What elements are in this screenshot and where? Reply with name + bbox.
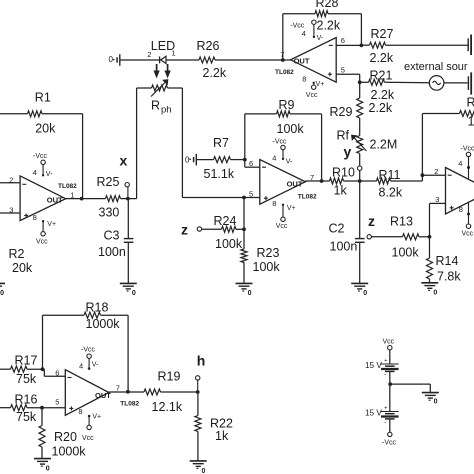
svg-text:5: 5	[249, 190, 253, 199]
battery V2 15V	[381, 411, 399, 413]
resistor R19 12.1k	[144, 389, 161, 395]
wire U1 pin2 input	[0, 182, 20, 184]
svg-text:-Vcc: -Vcc	[461, 146, 474, 153]
ground R23	[236, 282, 253, 284]
svg-text:2.2k: 2.2k	[370, 51, 394, 65]
resistor R1 20k feedback	[0, 113, 28, 115]
resistor R25 330	[106, 196, 121, 202]
U1 V- supply stub	[42, 165, 44, 176]
svg-text:R23: R23	[257, 246, 280, 260]
resistor R17 75k	[0, 368, 11, 370]
svg-text:6: 6	[341, 36, 345, 45]
svg-text:R13: R13	[390, 215, 413, 229]
svg-text:2: 2	[9, 175, 13, 184]
svg-text:z: z	[368, 213, 375, 229]
svg-text:h: h	[197, 353, 206, 369]
wire U2 output	[305, 180, 329, 182]
svg-text:V-: V-	[317, 35, 324, 42]
svg-text:0: 0	[109, 55, 114, 64]
svg-text:7: 7	[116, 383, 120, 392]
resistor R22 1k	[197, 392, 199, 416]
svg-text:2.2k: 2.2k	[369, 101, 393, 115]
svg-text:100n: 100n	[330, 240, 358, 254]
svg-text:TL082: TL082	[58, 183, 77, 190]
photoresistor Rph	[136, 88, 138, 199]
resistor R28 2.2k feedback	[282, 14, 284, 60]
svg-text:-Vcc: -Vcc	[273, 138, 288, 145]
wire Rph right to U2 pin5	[181, 88, 183, 198]
svg-text:2.2k: 2.2k	[371, 88, 395, 102]
svg-text:7.8k: 7.8k	[437, 270, 461, 284]
node U5 output junction (to R28)	[281, 58, 285, 62]
U2 V+ supply stub	[282, 204, 284, 217]
wire R1 to U1 output	[82, 114, 84, 199]
node h	[196, 390, 200, 394]
svg-text:8: 8	[272, 199, 276, 208]
svg-text:TL082: TL082	[298, 193, 317, 200]
svg-text:V+: V+	[47, 221, 56, 228]
node U2 pin6 junction	[243, 158, 247, 162]
svg-text:Vcc: Vcc	[306, 92, 318, 99]
svg-text:+: +	[384, 358, 387, 364]
resistor R14 7.8k	[429, 237, 431, 258]
svg-text:1k: 1k	[215, 429, 229, 443]
svg-text:R21: R21	[370, 69, 393, 83]
svg-text:LED: LED	[151, 39, 175, 53]
svg-text:20k: 20k	[35, 122, 56, 136]
svg-text:20k: 20k	[12, 261, 33, 275]
wire battery junction	[389, 371, 391, 411]
svg-text:75k: 75k	[16, 410, 37, 424]
svg-text:R25: R25	[97, 175, 120, 189]
svg-text:6: 6	[55, 368, 59, 377]
svg-text:TL082: TL082	[120, 400, 139, 407]
svg-text:100k: 100k	[253, 260, 281, 274]
resistor R7 51.1k	[196, 159, 213, 161]
svg-text:2.2M: 2.2M	[370, 138, 398, 152]
battery V1 15V	[389, 350, 391, 364]
svg-text:8: 8	[78, 407, 82, 416]
-Vcc supply terminal	[388, 432, 392, 436]
svg-text:8: 8	[459, 205, 463, 214]
wire R11 up to U3 pin2	[421, 114, 423, 182]
node R17/R18 junction	[41, 367, 45, 371]
svg-text:-: -	[384, 371, 386, 378]
ground R22	[190, 460, 207, 462]
svg-text:-Vcc: -Vcc	[382, 440, 397, 447]
svg-text:12.1k: 12.1k	[152, 400, 183, 414]
svg-text:Rf: Rf	[337, 129, 350, 143]
svg-text:8: 8	[302, 75, 306, 84]
svg-text:3: 3	[9, 205, 13, 214]
svg-text:4: 4	[302, 29, 306, 38]
resistor R11 8.2k	[377, 178, 391, 184]
U2 V- supply stub	[282, 150, 284, 160]
U3 V- supply stub	[468, 157, 470, 179]
svg-text:V+: V+	[287, 205, 296, 212]
capacitor (R27, cut at right edge)	[467, 38, 469, 51]
svg-text:-: -	[384, 419, 386, 426]
svg-text:OUT: OUT	[95, 391, 111, 400]
resistor R13 100k	[371, 236, 402, 238]
svg-text:100n: 100n	[98, 245, 126, 259]
ground R20	[34, 458, 51, 460]
svg-text:R17: R17	[15, 354, 38, 368]
svg-text:-Vcc: -Vcc	[33, 153, 48, 160]
svg-text:V+: V+	[92, 414, 101, 421]
svg-text:5: 5	[55, 398, 59, 407]
svg-text:-Vcc: -Vcc	[81, 346, 96, 353]
resistor R21 2.2k	[360, 81, 369, 83]
resistor R20 1000k	[41, 408, 43, 426]
node z (second)	[367, 235, 371, 239]
svg-text:R1: R1	[35, 91, 51, 105]
svg-text:R20: R20	[54, 430, 77, 444]
svg-text:2: 2	[434, 167, 438, 176]
svg-text:4: 4	[272, 154, 276, 163]
wire U5 pin5 down	[336, 73, 360, 75]
svg-text:0: 0	[185, 155, 190, 164]
U5 V- supply stub	[313, 24, 315, 37]
resistor R23 100k	[241, 249, 247, 263]
U5 V+ supply stub	[313, 82, 315, 85]
svg-text:0: 0	[202, 468, 206, 474]
svg-text:100k: 100k	[392, 246, 420, 260]
svg-text:2.2k: 2.2k	[203, 66, 227, 80]
svg-text:R7: R7	[213, 136, 229, 150]
resistor R18 1000k feedback	[42, 315, 44, 369]
svg-text:330: 330	[99, 206, 120, 220]
svg-text:0: 0	[433, 289, 437, 296]
svg-text:Vcc: Vcc	[36, 239, 48, 246]
svg-text:0: 0	[0, 290, 4, 297]
node y	[358, 166, 362, 170]
svg-text:TL082: TL082	[275, 69, 294, 76]
svg-text:R19: R19	[158, 370, 181, 384]
U1 V+ supply stub	[42, 221, 44, 232]
potentiometer Rf 2.2M	[357, 136, 363, 154]
wire U4 output	[109, 391, 144, 393]
svg-text:1: 1	[468, 115, 474, 129]
op-amp U5 TL082 (output at left)	[291, 38, 337, 83]
LED light arrows	[156, 64, 158, 72]
svg-text:+: +	[384, 406, 387, 412]
LED diode	[159, 56, 161, 63]
svg-text:0: 0	[363, 290, 367, 297]
svg-text:R29: R29	[330, 105, 353, 119]
resistor R26 2.2k	[199, 57, 215, 63]
ground supply	[422, 392, 439, 394]
resistor R10 1k	[330, 178, 344, 184]
U4 V+ supply stub	[88, 415, 90, 425]
svg-text:OUT: OUT	[294, 56, 310, 65]
svg-text:R10: R10	[332, 166, 355, 180]
svg-text:R28: R28	[316, 0, 339, 10]
svg-text:4: 4	[79, 362, 83, 371]
svg-text:x: x	[120, 153, 128, 169]
Vcc supply terminal	[388, 346, 392, 350]
svg-text:Vcc: Vcc	[383, 339, 395, 346]
svg-text:Vcc: Vcc	[82, 435, 94, 442]
svg-text:0: 0	[46, 466, 50, 473]
resistor R29 2.2k	[357, 98, 363, 118]
svg-text:Vcc: Vcc	[462, 231, 474, 238]
wire R9 right leg down to U2 output	[321, 114, 323, 181]
wire LED branch	[120, 59, 199, 61]
U3 V+ supply stub	[468, 203, 470, 224]
capacitor C2 100n	[355, 238, 365, 240]
svg-text:R: R	[467, 96, 474, 110]
svg-text:0: 0	[248, 290, 252, 297]
node U1 output junction	[80, 197, 84, 201]
svg-text:51.1k: 51.1k	[204, 167, 235, 181]
U4 V- supply stub	[88, 358, 90, 369]
svg-text:2.2k: 2.2k	[317, 19, 341, 33]
svg-text:C2: C2	[329, 222, 345, 236]
wire U5 pin6 to R27	[336, 44, 361, 46]
resistor R24 100k	[202, 228, 222, 230]
svg-text:R24: R24	[214, 214, 237, 228]
svg-text:z: z	[181, 222, 188, 238]
wire to feedback resistor (cut at right edge)	[422, 113, 459, 115]
Rph arrow	[151, 81, 167, 97]
svg-text:external sour: external sour	[404, 61, 468, 73]
svg-text:R26: R26	[197, 39, 220, 53]
wire U2 pin5 down to R24/R23 junction	[243, 198, 245, 250]
svg-text:4: 4	[33, 168, 37, 177]
svg-text:1000k: 1000k	[52, 445, 87, 459]
svg-text:R18: R18	[86, 301, 109, 315]
wire U1 output to x node	[66, 198, 106, 200]
svg-text:Vcc: Vcc	[276, 223, 288, 230]
wire U3 pin3	[430, 202, 446, 204]
wire R9 left leg down to pin6	[244, 114, 246, 167]
resistor R27 2.2k	[361, 44, 369, 46]
svg-text:1000k: 1000k	[86, 317, 121, 331]
svg-text:15 V: 15 V	[365, 361, 382, 370]
ground C3	[120, 282, 137, 284]
svg-text:1k: 1k	[334, 184, 348, 198]
svg-text:-Vcc: -Vcc	[290, 22, 305, 29]
svg-text:5: 5	[341, 66, 345, 75]
svg-text:8: 8	[33, 213, 37, 222]
svg-text:R9: R9	[279, 98, 295, 112]
svg-text:OUT: OUT	[287, 179, 303, 188]
node x	[126, 197, 130, 201]
wire U1 pin3 input	[0, 212, 20, 214]
resistor R9 100k feedback	[245, 113, 277, 115]
svg-text:R16: R16	[15, 393, 38, 407]
svg-text:R14: R14	[436, 254, 459, 268]
svg-text:75k: 75k	[16, 372, 37, 386]
svg-text:100k: 100k	[277, 122, 305, 136]
wire to U4 pin6	[43, 369, 45, 376]
op-amp U4 TL082	[65, 370, 109, 416]
svg-text:y: y	[344, 144, 352, 160]
svg-text:V+: V+	[316, 81, 325, 88]
ground R14	[421, 282, 438, 284]
svg-text:15 V: 15 V	[365, 409, 382, 418]
op-amp U2 TL082	[260, 160, 306, 205]
svg-text:V-: V-	[46, 171, 53, 178]
op-amp U1 TL082	[20, 176, 66, 221]
capacitor C3 100n	[127, 199, 129, 238]
op-amp U3 TL082 (cut at right edge)	[446, 168, 474, 215]
ground R2	[0, 282, 5, 284]
svg-text:R: R	[151, 99, 160, 113]
svg-text:0: 0	[132, 290, 136, 297]
svg-text:R2: R2	[9, 247, 25, 261]
svg-text:8.2k: 8.2k	[379, 186, 403, 200]
svg-text:100k: 100k	[215, 237, 243, 251]
svg-text:0: 0	[434, 399, 438, 406]
svg-text:OUT: OUT	[47, 196, 63, 205]
svg-text:V-: V-	[286, 158, 293, 165]
svg-text:R27: R27	[371, 27, 394, 41]
svg-text:V-: V-	[92, 361, 99, 368]
svg-text:ph: ph	[161, 105, 172, 116]
svg-text:R11: R11	[379, 168, 401, 182]
svg-text:4: 4	[458, 159, 462, 168]
resistor R? (cut at right edge)	[460, 111, 474, 117]
svg-text:C3: C3	[104, 229, 120, 243]
capacitor (external source, cut at right edge)	[467, 76, 469, 90]
resistor R16 75k	[0, 407, 11, 409]
ground C2	[351, 282, 368, 284]
